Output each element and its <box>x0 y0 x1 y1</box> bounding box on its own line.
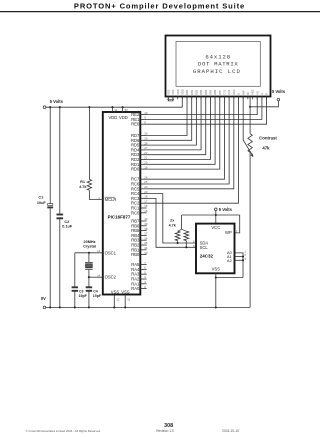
svg-text:15pF: 15pF <box>79 294 88 298</box>
junction SDA pullup <box>177 242 179 244</box>
svg-text:0V: 0V <box>41 296 46 301</box>
capacitor C4 15pF <box>88 277 90 287</box>
crystal X1 <box>88 253 90 262</box>
svg-text:31: 31 <box>127 298 131 302</box>
svg-text:PIC16F877: PIC16F877 <box>108 215 131 220</box>
junction OSC2/XTAL <box>88 276 90 278</box>
svg-text:12: 12 <box>116 298 120 302</box>
svg-text:37: 37 <box>144 232 148 236</box>
pot wiper from LCD VO pin <box>243 96 252 155</box>
svg-text:VSS: VSS <box>212 267 221 272</box>
junction R1/5V <box>88 106 90 108</box>
junction gnd x114.3 <box>113 306 115 308</box>
svg-text:RC0: RC0 <box>131 210 140 215</box>
svg-text:DI: DI <box>246 92 250 95</box>
wire LCD VDD pin to 5V rail <box>181 96 183 107</box>
junction C1/5V <box>49 106 51 108</box>
junction VCC/5V <box>215 214 217 216</box>
svg-text:VSS: VSS <box>166 89 170 94</box>
wire RD6 bus <box>147 96 192 140</box>
5 Volts terminal (left) <box>43 106 46 109</box>
svg-text:20MHz: 20MHz <box>83 240 95 244</box>
svg-text:0.1uF: 0.1uF <box>62 225 73 229</box>
svg-text:C1: C1 <box>38 196 43 200</box>
svg-text:DB1: DB1 <box>190 89 194 95</box>
LCD module outline <box>166 36 271 97</box>
junction gnd x59.8 <box>59 306 61 308</box>
wire RE1 <box>147 96 262 119</box>
svg-text:PROTON+ Compiler Development S: PROTON+ Compiler Development Suite <box>74 1 245 10</box>
svg-text:Crystal: Crystal <box>83 245 96 249</box>
svg-text:RE0: RE0 <box>131 122 140 127</box>
junction gnd x74.8 <box>74 306 76 308</box>
wire RD0 bus <box>147 96 220 169</box>
wire RD7 bus <box>147 96 187 135</box>
svg-text:R1: R1 <box>80 180 85 184</box>
5V distribution to pullups and WP <box>182 214 240 216</box>
ground rail <box>46 306 250 308</box>
svg-text:WP: WP <box>225 230 232 235</box>
wire RC6 <box>147 96 230 184</box>
junction OSC1/XTAL <box>88 252 90 254</box>
svg-text:VDD: VDD <box>108 115 117 120</box>
capacitor C1 10uF <box>49 107 51 203</box>
wire RC5 <box>147 96 234 189</box>
svg-text:VCC: VCC <box>211 225 220 230</box>
wire RD3 bus <box>147 96 206 154</box>
svg-text:RB0: RB0 <box>131 252 140 257</box>
svg-text:4.7k: 4.7k <box>79 185 87 189</box>
svg-text:32: 32 <box>125 108 129 112</box>
svg-text:47k: 47k <box>262 146 270 151</box>
svg-text:14: 14 <box>97 273 101 277</box>
junction VDD1/5V <box>111 106 113 108</box>
svg-text:A2: A2 <box>227 258 232 263</box>
svg-text:CS2: CS2 <box>227 89 231 95</box>
title rule <box>0 11 320 13</box>
svg-text:2004-10-10: 2004-10-10 <box>222 429 239 433</box>
svg-text:E: E <box>237 93 241 95</box>
svg-text:RA0: RA0 <box>131 286 140 291</box>
svg-text:DB6: DB6 <box>213 89 217 95</box>
svg-text:GRAPHIC LCD: GRAPHIC LCD <box>193 68 241 75</box>
svg-text:39: 39 <box>144 222 148 226</box>
svg-text:DOT MATRIX: DOT MATRIX <box>198 61 239 68</box>
svg-text:VSS: VSS <box>111 289 120 294</box>
wire VCC feed <box>215 211 217 224</box>
A0 A1 A2 straps <box>235 253 244 278</box>
capacitor C3 15pF <box>74 253 76 287</box>
svg-text:OSC2: OSC2 <box>105 275 117 280</box>
svg-text:A: A <box>260 93 264 95</box>
wire RD5 bus <box>147 96 197 145</box>
wire SDA (RC4) <box>147 194 196 243</box>
wire 5V to LCD VDD / contrast <box>250 101 278 107</box>
svg-text:VSS: VSS <box>171 89 175 94</box>
junction gnd x125.2 <box>124 306 126 308</box>
junction gnd x215.8 <box>215 306 217 308</box>
svg-text:C4: C4 <box>93 290 98 294</box>
LCD pin stubs <box>167 96 169 99</box>
24C32 VSS to ground <box>215 273 217 307</box>
svg-text:24C32: 24C32 <box>200 253 214 258</box>
svg-text:OSC1: OSC1 <box>105 250 117 255</box>
svg-text:C3: C3 <box>79 290 84 294</box>
svg-text:© Crownhill Associates Limited: © Crownhill Associates Limited 2004 - Al… <box>26 429 101 433</box>
svg-text:SCL: SCL <box>200 245 209 250</box>
wire RD4 bus <box>147 96 201 150</box>
svg-text:DB5: DB5 <box>209 89 213 95</box>
svg-text:VEE: VEE <box>251 89 255 94</box>
svg-text:DB2: DB2 <box>194 89 198 95</box>
wire RC7 <box>147 96 225 179</box>
svg-text:35: 35 <box>144 241 148 245</box>
LCD display window <box>176 42 260 87</box>
wire RE2 <box>147 96 258 114</box>
svg-text:38: 38 <box>144 227 148 231</box>
svg-text:10uF: 10uF <box>37 201 47 205</box>
wire RC2 <box>147 96 239 203</box>
24C32 U2 <box>196 224 235 274</box>
svg-text:DB0: DB0 <box>185 89 189 95</box>
svg-text:11: 11 <box>114 108 117 112</box>
svg-text:VDD: VDD <box>119 115 128 120</box>
svg-text:5 Volts: 5 Volts <box>272 89 286 94</box>
svg-text:CS1: CS1 <box>223 89 227 95</box>
resistor R1 4.7k <box>88 107 90 179</box>
0V terminal <box>43 306 46 309</box>
svg-text:RD0: RD0 <box>131 167 140 172</box>
5V rail <box>46 106 183 108</box>
svg-text:RES: RES <box>232 89 236 95</box>
svg-text:C2: C2 <box>64 220 69 224</box>
svg-text:34: 34 <box>144 246 148 250</box>
junction C2/5V <box>59 106 61 108</box>
svg-text:DB4: DB4 <box>204 89 208 95</box>
wire RE0 <box>147 96 267 124</box>
wire LCD VSS tie (pins 1-2) <box>168 96 173 101</box>
svg-text:13: 13 <box>97 249 101 253</box>
PIC16F877 U1 <box>103 112 141 295</box>
svg-text:VDD: VDD <box>176 89 180 95</box>
svg-text:16: 16 <box>144 204 148 208</box>
svg-text:VSS: VSS <box>121 289 130 294</box>
VDD pins top <box>111 107 113 112</box>
svg-text:64x128: 64x128 <box>205 54 231 61</box>
junction LCD VDD wire <box>249 106 251 108</box>
wire RD2 bus <box>147 96 211 159</box>
svg-text:5 Volts: 5 Volts <box>219 207 233 212</box>
junction gnd x50.2 <box>49 306 51 308</box>
junction gnd x88.9 <box>88 306 90 308</box>
wire RD1 bus <box>147 96 216 164</box>
svg-text:36: 36 <box>144 236 148 240</box>
capacitor C2 0.1uF <box>59 107 61 214</box>
svg-text:K: K <box>265 93 269 95</box>
VSS pins bottom <box>113 295 115 308</box>
wire OSC1 <box>75 252 103 254</box>
svg-text:40: 40 <box>144 217 148 221</box>
svg-text:Revision 1.0: Revision 1.0 <box>156 429 174 433</box>
svg-text:VDD: VDD <box>180 89 184 95</box>
wire OSC2 <box>89 276 103 278</box>
junction SCL pullup <box>185 246 187 248</box>
svg-text:VO: VO <box>255 91 259 95</box>
contrast pot 47k <box>249 96 251 133</box>
wire SCL (RC3) <box>147 198 196 247</box>
svg-text:RW: RW <box>241 90 245 95</box>
svg-text:DB3: DB3 <box>199 89 203 95</box>
5 Volts terminal (EEPROM) <box>215 208 218 211</box>
svg-text:Contrast: Contrast <box>259 136 277 141</box>
svg-text:MCLR: MCLR <box>105 197 117 202</box>
svg-text:DB7: DB7 <box>218 89 222 95</box>
svg-text:4.7k: 4.7k <box>169 223 177 227</box>
svg-text:15: 15 <box>144 209 148 213</box>
svg-text:33: 33 <box>144 251 148 255</box>
5 Volts terminal (LCD right) <box>277 98 280 101</box>
svg-text:15pF: 15pF <box>93 294 102 298</box>
junction VDD2/5V <box>122 106 124 108</box>
svg-text:5 Volts: 5 Volts <box>50 99 64 104</box>
